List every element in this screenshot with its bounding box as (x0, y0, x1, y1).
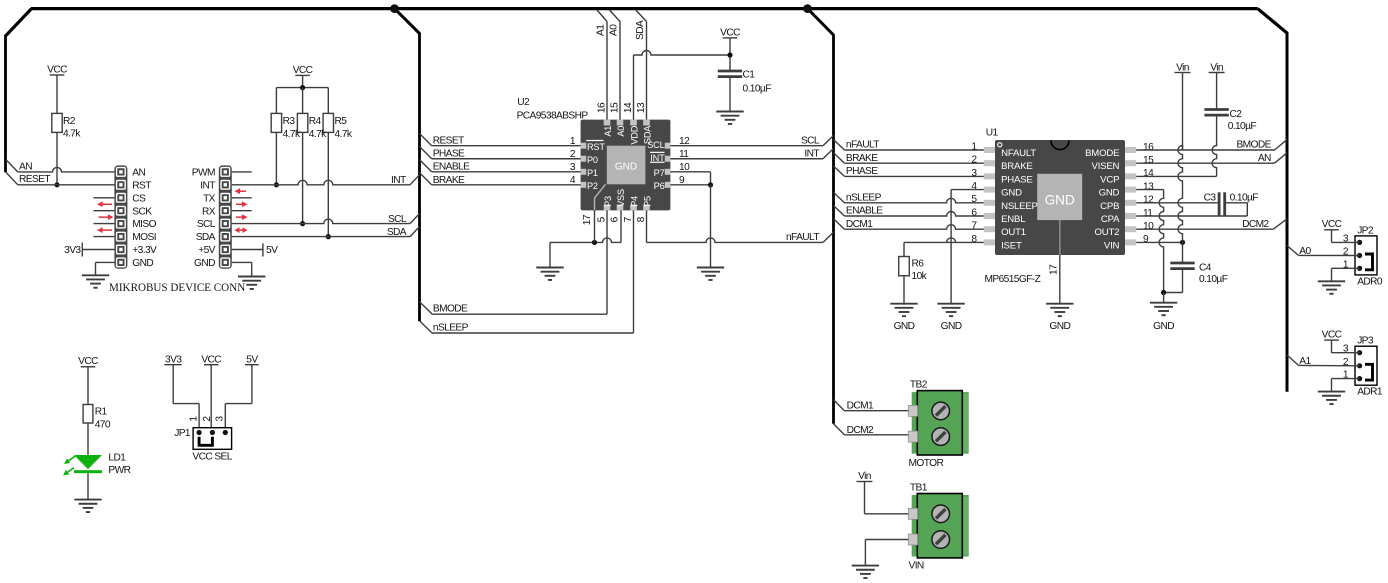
svg-text:P7: P7 (654, 168, 665, 178)
svg-text:C1: C1 (743, 70, 756, 81)
svg-text:0.10µF: 0.10µF (743, 84, 772, 95)
svg-text:GND: GND (1153, 321, 1174, 332)
svg-text:NFAULT: NFAULT (1001, 148, 1036, 159)
svg-text:A0: A0 (616, 126, 626, 137)
svg-text:SDA: SDA (196, 232, 216, 243)
svg-text:PCA9538ABSHP: PCA9538ABSHP (517, 111, 589, 122)
svg-text:A1: A1 (596, 24, 607, 36)
svg-text:nFAULT: nFAULT (786, 232, 819, 243)
svg-text:ISET: ISET (1001, 240, 1022, 251)
svg-text:ENABLE: ENABLE (846, 206, 883, 217)
svg-text:JP1: JP1 (174, 428, 191, 439)
svg-text:ENABLE: ENABLE (433, 162, 470, 173)
svg-text:PHASE: PHASE (433, 149, 465, 160)
svg-text:RX: RX (202, 206, 216, 217)
svg-text:VCC: VCC (78, 356, 98, 367)
svg-text:P2: P2 (587, 181, 598, 191)
svg-text:VCC: VCC (1322, 219, 1342, 230)
svg-text:A0: A0 (1299, 246, 1311, 257)
svg-text:C4: C4 (1199, 262, 1212, 273)
svg-text:13: 13 (1143, 181, 1154, 192)
svg-text:SCL: SCL (388, 214, 407, 225)
svg-text:MIKROBUS DEVICE CONN: MIKROBUS DEVICE CONN (109, 282, 245, 294)
svg-text:TX: TX (203, 193, 216, 204)
svg-text:GND: GND (132, 258, 153, 269)
svg-text:RST: RST (132, 180, 151, 191)
svg-text:R6: R6 (912, 258, 925, 269)
svg-text:A1: A1 (603, 126, 613, 137)
svg-text:P5: P5 (642, 196, 652, 207)
svg-text:3V3: 3V3 (165, 355, 182, 366)
svg-text:VISEN: VISEN (1092, 161, 1120, 172)
svg-text:MP6515GF-Z: MP6515GF-Z (985, 274, 1041, 285)
svg-text:P0: P0 (587, 155, 598, 165)
svg-text:NSLEEP: NSLEEP (1001, 201, 1038, 212)
svg-text:SDA: SDA (635, 20, 646, 40)
svg-text:15: 15 (610, 102, 621, 113)
svg-text:Vin: Vin (858, 471, 871, 482)
svg-text:5V: 5V (246, 355, 258, 366)
svg-text:4.7k: 4.7k (283, 129, 301, 140)
svg-text:PWM: PWM (192, 168, 215, 179)
svg-text:BRAKE: BRAKE (1001, 161, 1033, 172)
svg-text:DCM1: DCM1 (846, 219, 873, 230)
svg-text:C3: C3 (1204, 192, 1217, 203)
svg-text:GND: GND (194, 258, 215, 269)
svg-text:ADR0: ADR0 (1357, 276, 1383, 287)
svg-text:GND: GND (615, 162, 637, 173)
svg-text:RST: RST (587, 142, 605, 152)
svg-text:VCC: VCC (720, 27, 740, 38)
svg-text:R5: R5 (335, 116, 348, 127)
svg-text:GND: GND (1049, 321, 1070, 332)
svg-text:BMODE: BMODE (433, 304, 468, 315)
svg-text:VCP: VCP (1100, 174, 1119, 185)
svg-text:nSLEEP: nSLEEP (433, 322, 469, 333)
svg-text:RESET: RESET (19, 174, 50, 185)
svg-text:4.7k: 4.7k (309, 129, 327, 140)
svg-text:A0: A0 (609, 24, 620, 36)
svg-text:ENBL: ENBL (1001, 214, 1026, 225)
svg-text:5V: 5V (266, 245, 278, 256)
svg-text:U2: U2 (517, 97, 530, 108)
svg-text:0.10µF: 0.10µF (1230, 192, 1259, 203)
svg-text:10: 10 (1143, 221, 1154, 232)
svg-text:nFAULT: nFAULT (846, 140, 879, 151)
svg-text:470: 470 (95, 419, 111, 430)
svg-text:VCC: VCC (293, 65, 313, 76)
svg-text:P4: P4 (629, 196, 639, 207)
svg-text:GND: GND (894, 321, 915, 332)
svg-text:4.7k: 4.7k (335, 129, 353, 140)
svg-text:AN: AN (1258, 153, 1271, 164)
svg-text:BRAKE: BRAKE (433, 175, 465, 186)
svg-text:VIN: VIN (909, 561, 924, 572)
svg-text:+3.3V: +3.3V (132, 245, 157, 256)
svg-text:GND: GND (1001, 188, 1022, 199)
svg-text:MOTOR: MOTOR (909, 458, 944, 469)
svg-text:BRAKE: BRAKE (846, 153, 878, 164)
svg-text:P1: P1 (587, 168, 598, 178)
svg-text:Vin: Vin (1210, 62, 1223, 73)
svg-text:R2: R2 (63, 116, 76, 127)
svg-text:0.10µF: 0.10µF (1199, 274, 1228, 285)
svg-text:MISO: MISO (132, 219, 156, 230)
svg-text:INT: INT (200, 180, 215, 191)
svg-text:CPB: CPB (1100, 201, 1119, 212)
svg-text:16: 16 (597, 102, 608, 113)
svg-text:SCL: SCL (801, 136, 820, 147)
svg-text:10k: 10k (912, 271, 928, 282)
svg-text:DCM2: DCM2 (847, 425, 874, 436)
svg-text:16: 16 (1143, 142, 1154, 153)
svg-text:INT: INT (650, 153, 665, 163)
svg-text:GND: GND (1099, 188, 1120, 199)
svg-text:DCM2: DCM2 (1242, 219, 1269, 230)
svg-text:AN: AN (132, 168, 145, 179)
svg-text:JP3: JP3 (1357, 336, 1374, 347)
svg-text:PHASE: PHASE (1001, 174, 1033, 185)
svg-text:P6: P6 (654, 181, 665, 191)
svg-text:PHASE: PHASE (846, 166, 878, 177)
svg-text:OUT2: OUT2 (1095, 227, 1120, 238)
svg-text:CS: CS (132, 193, 146, 204)
svg-text:+5V: +5V (198, 245, 215, 256)
svg-text:INT: INT (391, 175, 406, 186)
svg-text:P3: P3 (603, 196, 613, 207)
svg-text:BMODE: BMODE (1085, 148, 1119, 159)
svg-text:GND: GND (941, 321, 962, 332)
svg-text:ADR1: ADR1 (1357, 387, 1383, 398)
svg-text:15: 15 (1143, 155, 1154, 166)
svg-text:11: 11 (1143, 208, 1153, 219)
svg-text:SCL: SCL (197, 219, 216, 230)
svg-text:3V3: 3V3 (64, 245, 81, 256)
svg-text:BMODE: BMODE (1236, 140, 1271, 151)
svg-text:SCK: SCK (132, 206, 152, 217)
svg-text:13: 13 (636, 102, 647, 113)
svg-text:4.7k: 4.7k (63, 129, 81, 140)
svg-text:VCC: VCC (47, 64, 67, 75)
svg-text:14: 14 (623, 102, 634, 113)
svg-text:R4: R4 (309, 116, 322, 127)
svg-text:VSS: VSS (616, 189, 626, 207)
svg-text:GND: GND (1045, 193, 1075, 208)
svg-text:R3: R3 (283, 116, 296, 127)
svg-text:0.10µF: 0.10µF (1228, 121, 1257, 132)
svg-text:VDD: VDD (629, 125, 639, 144)
svg-text:C2: C2 (1230, 109, 1243, 120)
svg-text:DCM1: DCM1 (847, 401, 874, 412)
svg-text:Vin: Vin (1176, 62, 1189, 73)
svg-text:SDA: SDA (642, 125, 652, 144)
svg-text:TB1: TB1 (910, 482, 928, 493)
svg-text:A1: A1 (1299, 356, 1311, 367)
svg-text:R1: R1 (95, 407, 108, 418)
svg-text:OUT1: OUT1 (1001, 227, 1026, 238)
svg-text:VCC: VCC (1322, 330, 1342, 341)
svg-text:RESET: RESET (433, 136, 464, 147)
svg-text:JP2: JP2 (1357, 225, 1374, 236)
svg-text:MOSI: MOSI (132, 232, 156, 243)
svg-text:nSLEEP: nSLEEP (846, 193, 882, 204)
svg-text:VCC: VCC (201, 355, 221, 366)
svg-text:CPA: CPA (1101, 214, 1120, 225)
svg-text:17: 17 (582, 214, 593, 225)
svg-text:AN: AN (19, 161, 32, 172)
svg-text:U1: U1 (986, 127, 999, 138)
svg-text:VIN: VIN (1104, 240, 1120, 251)
svg-text:12: 12 (1143, 195, 1154, 206)
svg-text:LD1: LD1 (108, 452, 126, 463)
svg-text:SDA: SDA (387, 227, 407, 238)
svg-text:17: 17 (1048, 264, 1059, 275)
svg-text:INT: INT (804, 149, 819, 160)
svg-text:VCC SEL: VCC SEL (192, 452, 232, 463)
svg-text:TB2: TB2 (910, 379, 928, 390)
svg-text:14: 14 (1143, 168, 1154, 179)
svg-text:PWR: PWR (108, 465, 130, 476)
